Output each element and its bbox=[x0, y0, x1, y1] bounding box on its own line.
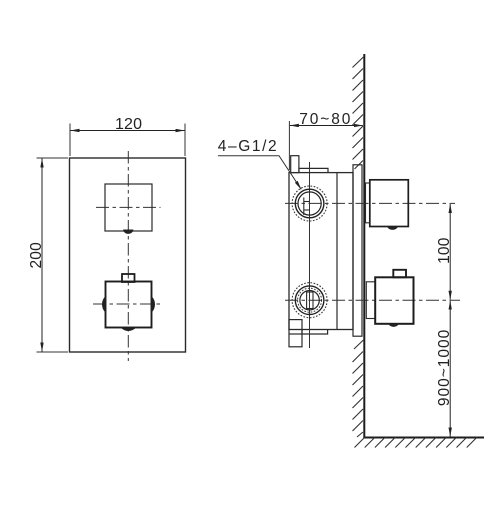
svg-text:900~1000: 900~1000 bbox=[436, 329, 453, 406]
bottom knob bbox=[106, 282, 152, 328]
bottom knob bottom bump bbox=[121, 328, 135, 331]
svg-text:200: 200 bbox=[28, 242, 45, 269]
top port inner circle bbox=[298, 192, 321, 215]
bottom knob tab bbox=[122, 274, 135, 282]
svg-text:100: 100 bbox=[436, 237, 453, 264]
top step bbox=[299, 168, 328, 172]
120 dimension line bbox=[71, 130, 185, 132]
bottom knob centerline bbox=[93, 303, 164, 305]
top handle nub bbox=[387, 227, 397, 230]
front vertical centerline bbox=[127, 151, 129, 361]
70~80 dimension line bbox=[290, 125, 363, 127]
200 dim extension lines bbox=[37, 158, 69, 352]
bottom port centerline bbox=[285, 299, 460, 301]
svg-text:120: 120 bbox=[115, 116, 142, 133]
bottom step bbox=[302, 330, 328, 335]
bottom handle tab bbox=[393, 270, 406, 278]
bottom knob right bump bbox=[151, 296, 154, 312]
svg-text:4–G1/2: 4–G1/2 bbox=[218, 138, 278, 155]
70~80 extension line bbox=[288, 121, 290, 170]
svg-text:70~80: 70~80 bbox=[299, 111, 352, 128]
wall hatching lower bbox=[353, 340, 364, 437]
top port inner detail bbox=[304, 198, 310, 216]
top handle bbox=[370, 180, 409, 227]
bottom port inner circle bbox=[300, 291, 319, 310]
120 dim extension lines bbox=[70, 124, 185, 157]
4-G1/2 leader bbox=[218, 156, 301, 190]
top port tab bbox=[291, 156, 299, 173]
top knob centerline bbox=[96, 206, 161, 208]
bottom knob left bump bbox=[102, 296, 105, 312]
body band divider bbox=[336, 173, 338, 330]
bottom port outer circle bbox=[295, 286, 324, 315]
top port thread circle bbox=[292, 186, 327, 221]
floor hatching bbox=[355, 437, 478, 448]
200 dimension line bbox=[41, 159, 43, 352]
bottom handle neck bbox=[366, 282, 375, 319]
top knob bbox=[105, 184, 152, 231]
top handle neck bbox=[366, 183, 370, 223]
valve body bbox=[289, 173, 353, 330]
bottom handle bbox=[375, 277, 413, 324]
bottom port tab bbox=[289, 320, 302, 347]
900~1000 dimension line bbox=[449, 301, 451, 437]
bottom handle nub bbox=[389, 324, 399, 327]
top knob nub bbox=[124, 230, 133, 234]
bottom port thread circle bbox=[292, 283, 327, 318]
bottom port thread inner circle bbox=[298, 288, 322, 312]
100 dimension line bbox=[449, 204, 451, 300]
wall and floor section line bbox=[364, 54, 484, 438]
bottom port inner detail bbox=[307, 292, 313, 309]
front view faceplate bbox=[70, 158, 186, 352]
body vertical axis bbox=[309, 162, 311, 348]
top port outer circle bbox=[295, 189, 324, 218]
top port centerline bbox=[285, 202, 455, 204]
flange plate bbox=[353, 165, 362, 336]
wall hatching upper bbox=[353, 57, 364, 169]
